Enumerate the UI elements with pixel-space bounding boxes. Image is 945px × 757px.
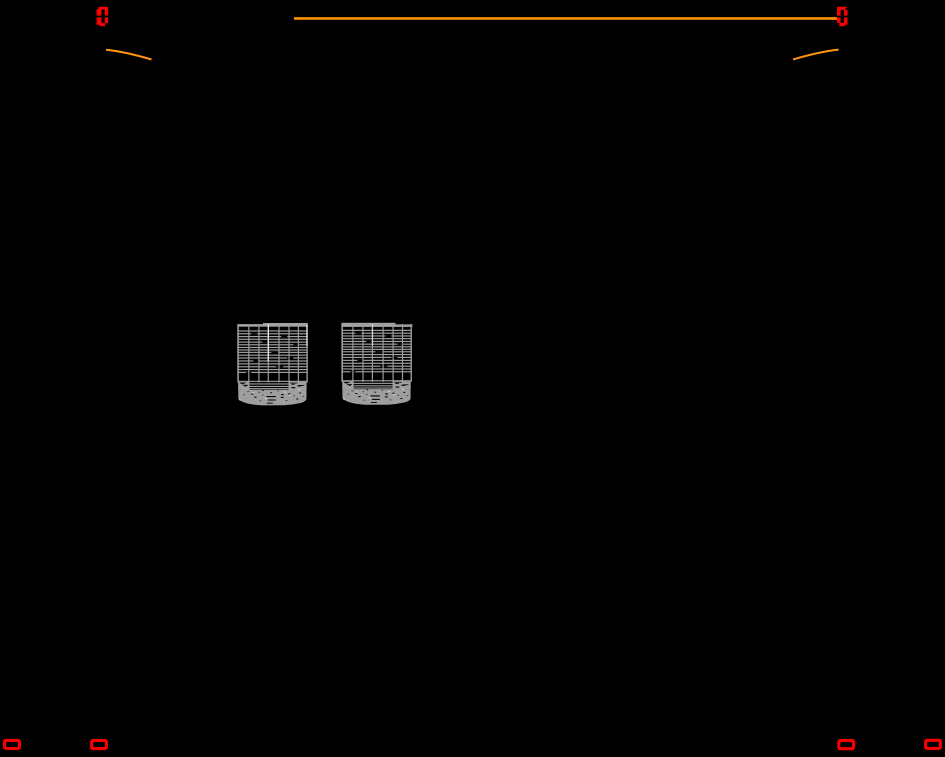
left glass bbox=[237, 323, 307, 405]
score right 0 bbox=[837, 7, 848, 27]
right glass bbox=[341, 323, 412, 405]
left rim arc bbox=[106, 50, 152, 60]
bottom red buttons bbox=[5, 740, 941, 748]
score left 0 bbox=[96, 7, 109, 26]
table far edge line bbox=[294, 17, 837, 20]
right rim arc bbox=[793, 50, 839, 60]
